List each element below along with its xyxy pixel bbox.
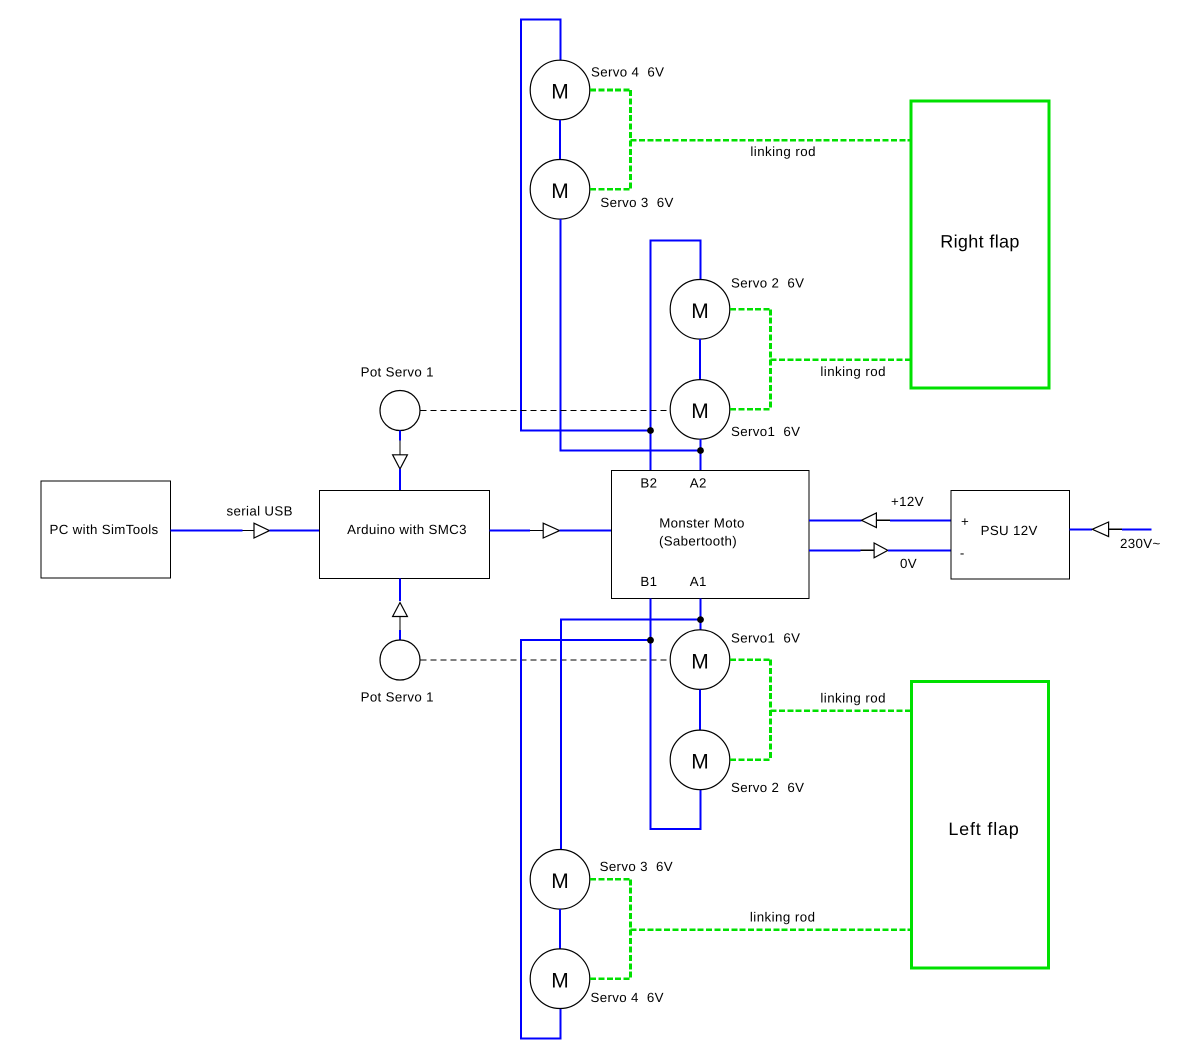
wire servo3 bottom to A2 junction (561, 219, 701, 450)
svg-text:Servo 4 6V: Servo 4 6V (591, 990, 664, 1005)
wire arduino to MM arrow (490, 530, 531, 532)
green link servo4 bottom (590, 977, 631, 980)
wire pot top down (399, 431, 401, 441)
junction dot A1 branch (697, 616, 704, 623)
svg-text:Servo 4 6V: Servo 4 6V (591, 64, 664, 79)
green link servo4 (590, 89, 631, 92)
svg-text:PC with SimTools: PC with SimTools (49, 522, 158, 537)
wire A2 pin to servo1 bottom (700, 439, 702, 470)
green link vertical servos 2-1 (769, 309, 772, 409)
svg-text:Servo 3 6V: Servo 3 6V (600, 195, 673, 210)
arrow 230V (1092, 522, 1122, 537)
svg-text:A2: A2 (690, 475, 707, 490)
wire B1 pin down around loop to servo2 bottom (651, 599, 701, 830)
wire 0V monster moto to arrow (809, 549, 861, 551)
svg-text:Arduino with SMC3: Arduino with SMC3 (347, 522, 467, 537)
green link servo3 bottom (590, 878, 631, 881)
svg-text:M: M (691, 751, 709, 774)
arrow into arduino top (393, 455, 408, 469)
svg-text:M: M (551, 81, 569, 104)
arrow 0V (861, 543, 888, 558)
svg-text:Monster Moto: Monster Moto (659, 515, 745, 530)
svg-text:Servo 2 6V: Servo 2 6V (731, 276, 804, 291)
block Monster Moto (Sabertooth) (612, 471, 810, 599)
wire PC to serial arrow (171, 530, 243, 532)
svg-text:Servo1 6V: Servo1 6V (731, 631, 800, 646)
pot servo 1 top circle (380, 391, 420, 431)
green link vertical servos 3-4 bottom (629, 879, 632, 978)
block Arduino with SMC3 (320, 490, 490, 578)
wire servo1b to servo2b (699, 689, 701, 730)
motor servo 3 top M2 (530, 160, 590, 220)
block Right flap (911, 101, 1049, 388)
motor servo 2 top M3 (670, 280, 730, 340)
svg-text:+12V: +12V (891, 494, 924, 509)
svg-text:linking rod: linking rod (750, 910, 816, 925)
green link servo2 bottom (730, 759, 771, 762)
wire arduino bottom down (399, 579, 401, 602)
svg-text:PSU 12V: PSU 12V (981, 523, 1038, 538)
green link vertical servos 4-3 (629, 90, 632, 189)
arrow serial USB (243, 523, 270, 538)
green link servo1 (730, 408, 771, 411)
svg-text:-: - (960, 545, 965, 560)
svg-text:M: M (551, 180, 569, 203)
arrow tail pot top (399, 441, 401, 455)
svg-text:0V: 0V (900, 556, 917, 571)
green link vertical servos 1-2 bottom (769, 660, 772, 760)
svg-text:M: M (691, 650, 709, 673)
junction dot A2 branch (697, 447, 704, 454)
pot servo 1 bottom circle (380, 640, 420, 680)
junction dot B2 branch (647, 427, 654, 434)
block PSU 12V (951, 491, 1070, 579)
wire 0V arrow to PSU (888, 549, 951, 551)
svg-text:B2: B2 (640, 475, 657, 490)
arrow into arduino bottom (393, 603, 408, 617)
svg-text:linking rod: linking rod (750, 144, 816, 159)
wire A1 junction to servo3 bottom (561, 620, 700, 850)
junction dot B1 branch (647, 637, 654, 644)
svg-text:230V~: 230V~ (1120, 536, 1161, 551)
motor servo 4 top M1 (530, 60, 590, 120)
dashed wire pot bottom to servo1 (421, 659, 671, 661)
svg-text:Left flap: Left flap (948, 819, 1019, 839)
motor servo 1 top M4 (670, 380, 730, 440)
wire A1 pin to servo1 bottom top (700, 599, 702, 630)
wire serial arrow to arduino (270, 530, 320, 532)
svg-text:Servo 3 6V: Servo 3 6V (600, 859, 673, 874)
svg-text:Pot Servo 1: Pot Servo 1 (361, 364, 434, 379)
svg-text:M: M (551, 969, 569, 992)
wire servo2 to servo1 (699, 339, 701, 380)
motor servo 3 bottom M7 (530, 850, 590, 910)
svg-text:Servo 2 6V: Servo 2 6V (731, 780, 804, 795)
green linking rod to right flap top (631, 139, 910, 142)
svg-text:A1: A1 (690, 574, 707, 589)
svg-text:M: M (551, 870, 569, 893)
svg-text:Right flap: Right flap (940, 231, 1020, 251)
arrow +12V (861, 513, 890, 528)
wire +12V monster moto to arrow (809, 519, 861, 521)
svg-text:+: + (961, 514, 969, 529)
svg-text:B1: B1 (640, 574, 657, 589)
svg-text:Pot Servo 1: Pot Servo 1 (361, 689, 434, 704)
arrow arduino to monster moto (530, 523, 560, 538)
green link servo2 (730, 308, 771, 311)
wire +12V arrow to PSU (890, 519, 951, 521)
motor servo 1 bottom M5 (670, 630, 730, 690)
svg-text:serial USB: serial USB (227, 504, 293, 519)
svg-text:linking rod: linking rod (820, 691, 886, 706)
wire to pot bottom (399, 630, 401, 640)
green linking rod to right flap bottom (771, 359, 910, 362)
dashed wire pot top to servo1 (421, 410, 671, 412)
motor servo 4 bottom M8 (530, 949, 590, 1009)
motor servo 2 bottom M6 (670, 730, 730, 790)
svg-text:M: M (691, 400, 709, 423)
svg-text:linking rod: linking rod (820, 364, 886, 379)
svg-text:Servo1 6V: Servo1 6V (731, 424, 800, 439)
green link servo1 bottom (730, 658, 771, 661)
wire arrow into arduino top (399, 469, 401, 490)
block PC with SimTools (41, 481, 171, 578)
wire B2 branch loop to servo 4 top (521, 20, 651, 431)
svg-text:M: M (691, 300, 709, 323)
wire servo3b to servo4b (559, 909, 561, 949)
wire servo4 to servo3 (559, 120, 561, 160)
green link servo3 (590, 188, 631, 191)
block Left flap (912, 682, 1049, 968)
svg-text:(Sabertooth): (Sabertooth) (659, 533, 737, 548)
wire B1 branch loop to servo 4 bottom (521, 640, 651, 1038)
wire arrow to monster moto (560, 530, 611, 532)
green linking rod to left flap top (771, 709, 911, 712)
green linking rod to left flap bottom (631, 929, 911, 932)
wire B2 pin up over loop to servo 2 top (651, 241, 701, 471)
arrow tail pot bottom (399, 617, 401, 631)
wire 230V in (1122, 528, 1151, 530)
wire 230V PSU to arrow (1070, 528, 1093, 530)
